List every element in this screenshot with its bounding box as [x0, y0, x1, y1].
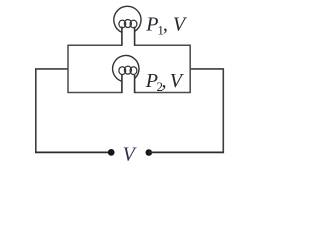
lamp L2 (rated P2, V) [113, 55, 139, 93]
terminal dot left [108, 149, 115, 156]
svg-text:P1, V: P1, V [145, 14, 188, 38]
lamp L1 (rated P1, V) [114, 6, 141, 46]
wire: top branch right segment with node corners [135, 45, 191, 92]
wire: outer loop left vertical [35, 69, 37, 152]
wire: outer loop right vertical [222, 69, 224, 153]
svg-text:P2, V: P2, V [145, 70, 185, 94]
label P2, V [145, 70, 185, 94]
svg-text:V: V [123, 144, 138, 166]
terminal dot right [146, 149, 153, 156]
wire: bottom left segment to terminal [35, 151, 111, 153]
wire: right link to parallel section [190, 68, 224, 70]
wire: top branch left segment with node corners [68, 45, 122, 92]
wire: bottom right segment from terminal [149, 151, 224, 153]
label P1, V [145, 14, 188, 38]
label V (supply voltage) [123, 144, 138, 166]
wire: left link to parallel section [35, 68, 68, 70]
